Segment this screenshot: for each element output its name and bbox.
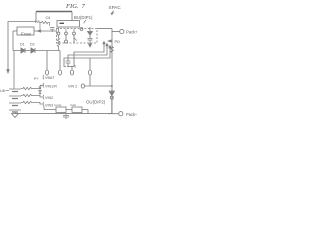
svg-text:VIN2: VIN2 [45, 96, 53, 100]
svg-text:2W: 2W [35, 20, 41, 24]
svg-text:SPAC: SPAC [109, 5, 122, 10]
svg-text:P+: P+ [34, 77, 39, 81]
svg-text:temp: temp [55, 103, 62, 107]
svg-text:VIN1/R: VIN1/R [45, 84, 57, 88]
svg-text:OU(DIP2): OU(DIP2) [86, 100, 106, 105]
svg-text:batt: batt [71, 103, 76, 107]
svg-text:C6: C6 [46, 16, 51, 20]
svg-text:VIN 2: VIN 2 [68, 85, 77, 89]
svg-text:VBAT: VBAT [45, 76, 55, 80]
svg-text:Pack+: Pack+ [126, 29, 137, 34]
svg-text:PD: PD [115, 39, 121, 44]
svg-text:Fuse: Fuse [21, 31, 32, 36]
svg-text:D2: D2 [30, 43, 35, 47]
svg-text:5: 5 [74, 65, 76, 69]
svg-text:VIN3: VIN3 [45, 103, 53, 107]
svg-text:D1: D1 [20, 43, 25, 47]
svg-text:FIG.: FIG. [65, 3, 79, 10]
svg-text:U6: U6 [0, 88, 5, 93]
svg-text:Pack–: Pack– [126, 112, 137, 117]
svg-text:BU(DIP1): BU(DIP1) [74, 15, 93, 20]
